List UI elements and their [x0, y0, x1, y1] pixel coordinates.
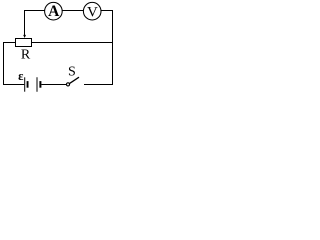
- switch blade: [69, 77, 79, 83]
- ammeter U-A: [45, 2, 63, 20]
- wire right vertical: [112, 10, 114, 85]
- wire top (from wiper corner to right corner): [25, 10, 113, 12]
- battery cell1 short plate: [27, 81, 29, 88]
- battery cell2 short plate: [39, 81, 41, 88]
- wire switch to right corner: [84, 84, 113, 86]
- battery cell1 long plate: [24, 77, 26, 91]
- wire resistor left lead: [4, 42, 16, 44]
- svg-text:S: S: [68, 65, 76, 80]
- battery cell2 long plate: [36, 77, 38, 91]
- wire wiper vertical: [24, 10, 26, 36]
- svg-text:A: A: [48, 3, 60, 20]
- switch pivot: [66, 83, 69, 86]
- voltmeter U-V: [83, 2, 101, 20]
- resistor R (rheostat box): [16, 39, 32, 47]
- svg-text:R: R: [21, 48, 31, 63]
- wire bottom left segment: [4, 84, 25, 86]
- wire resistor right lead: [32, 42, 113, 44]
- wiper arrowhead: [23, 35, 26, 38]
- svg-text:ε: ε: [18, 69, 24, 83]
- svg-text:V: V: [87, 4, 98, 20]
- wire battery to switch: [41, 84, 66, 86]
- wire left vertical: [3, 42, 5, 85]
